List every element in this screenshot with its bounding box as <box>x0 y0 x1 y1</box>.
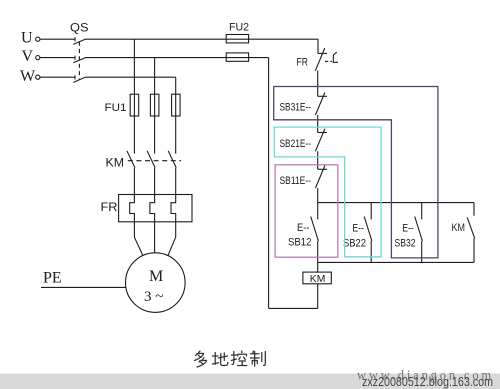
pushbutton SB12 blade <box>311 217 319 242</box>
wire FR to motor c <box>168 222 176 256</box>
group box location2 cyan <box>274 127 381 257</box>
pushbutton SB22 blade <box>364 217 372 242</box>
pushbutton SB22 stub <box>370 203 372 220</box>
wire FU2-1 to control drop <box>226 38 318 40</box>
title 多地控制 (drawn as strokes) <box>195 351 266 367</box>
QS pole W fixed tick <box>74 75 76 79</box>
fuse FU1-c <box>172 94 181 116</box>
QS pole U fixed tick <box>74 37 76 41</box>
terminal V <box>36 56 40 60</box>
wire U after QS <box>85 38 226 40</box>
svg-text:3 ~: 3 ~ <box>144 289 163 305</box>
pushbutton SB32 blade <box>415 217 423 242</box>
QS linkage dashed <box>78 42 80 81</box>
wire PE <box>41 286 126 288</box>
FR actuator hook <box>333 52 338 62</box>
wire W to QS <box>40 76 75 78</box>
top bus <box>318 202 474 204</box>
wire FR to SB31 <box>317 71 319 97</box>
pushbutton SB11 blade <box>315 166 325 189</box>
wire coil to bottom <box>317 284 319 309</box>
pushbutton SB31 NC bar <box>318 95 327 97</box>
contact KM aux stub <box>473 203 475 216</box>
thermal relay FR box <box>119 195 192 222</box>
char 控 <box>231 351 247 366</box>
svg-text:FU2: FU2 <box>229 22 249 34</box>
svg-text:U: U <box>21 30 33 47</box>
motor M circle <box>126 253 186 313</box>
svg-text:SB32: SB32 <box>395 237 416 249</box>
fuse FU2-2 <box>226 53 248 61</box>
group box location1 magenta <box>275 165 338 257</box>
terminal U <box>36 37 40 41</box>
wire SB32 down <box>421 241 423 262</box>
wire W after QS <box>85 76 176 78</box>
contact KM aux blade <box>467 217 475 238</box>
svg-text:SB11E--: SB11E-- <box>280 175 312 187</box>
FR heater b <box>150 195 155 222</box>
svg-text:SB21E--: SB21E-- <box>280 138 312 150</box>
contactor KM pole a <box>127 151 135 168</box>
fuse FU1-a <box>130 94 139 116</box>
wire FR to motor a <box>134 222 142 256</box>
wire KM aux down <box>473 238 475 262</box>
group box location3 navy <box>274 87 438 258</box>
char 多 <box>195 351 207 367</box>
char 制 <box>250 351 265 366</box>
wire SB31 to SB21 <box>317 115 319 133</box>
svg-text:KM: KM <box>106 158 125 170</box>
footer gray bar <box>0 374 500 389</box>
QS pole W blade <box>73 77 85 82</box>
FR heater a <box>130 195 135 222</box>
svg-text:E--: E-- <box>297 222 310 234</box>
wire SB21 to SB11 <box>317 151 319 169</box>
svg-text:E--: E-- <box>402 222 414 234</box>
wire control feed drop <box>317 39 319 53</box>
svg-text:FR: FR <box>297 57 309 69</box>
wire KM to FR <box>134 168 175 195</box>
FR heater c <box>171 195 176 222</box>
svg-text:PE: PE <box>43 270 62 287</box>
svg-text:SB31E--: SB31E-- <box>280 102 312 114</box>
pushbutton SB31 blade <box>315 93 325 116</box>
svg-text:KM: KM <box>452 222 466 234</box>
wire drop phase B <box>154 58 156 95</box>
wire SB11 to bus <box>317 188 319 203</box>
FR linkage dashes <box>325 60 332 62</box>
QS pole U blade <box>73 39 85 44</box>
svg-text:FU1: FU1 <box>105 102 127 114</box>
wire drop phase C <box>175 77 177 94</box>
svg-text:E--: E-- <box>352 222 364 234</box>
svg-text:V: V <box>22 48 34 65</box>
bottom return wire <box>269 307 318 309</box>
FR NC contact blade <box>315 48 325 71</box>
char 地 <box>213 353 228 366</box>
svg-text:M: M <box>149 268 163 285</box>
svg-text:QS: QS <box>70 21 89 35</box>
wire FU1 to KM contacts <box>134 116 175 154</box>
pushbutton SB21 NC bar <box>318 132 327 134</box>
contactor KM pole c <box>168 151 176 168</box>
bottom bus <box>318 261 474 263</box>
pushbutton SB11 NC bar <box>318 168 327 170</box>
terminal W <box>36 75 40 79</box>
QS pole V blade <box>73 58 85 63</box>
svg-text:KM: KM <box>310 274 326 285</box>
fuse FU1-b <box>150 94 159 116</box>
pushbutton SB32 stub <box>421 203 423 220</box>
fuse FU2-1 <box>226 35 248 43</box>
wire V after QS <box>85 57 226 59</box>
svg-text:FR: FR <box>101 202 118 214</box>
wire FU2-2 to left return <box>226 57 269 59</box>
svg-text:SB12: SB12 <box>288 237 312 249</box>
left return wire <box>268 58 270 309</box>
wire drop phase A <box>133 39 135 94</box>
wire V to QS <box>40 57 75 59</box>
KM linkage dashed <box>128 160 181 162</box>
QS pole V fixed tick <box>74 56 76 60</box>
pushbutton SB21 blade <box>315 129 325 152</box>
pushbutton SB12 stub <box>317 203 319 220</box>
svg-text:zxz20080512.blog.163.com: zxz20080512.blog.163.com <box>362 375 493 389</box>
wire U to QS <box>40 38 75 40</box>
contactor KM pole b <box>147 151 155 168</box>
svg-text:W: W <box>20 68 36 85</box>
svg-text:SB22: SB22 <box>343 237 366 249</box>
coil KM box <box>303 272 331 284</box>
FR NC contact bar <box>318 52 327 54</box>
wire SB12 down <box>317 241 319 262</box>
wire SB22 down <box>370 241 372 262</box>
wire FR to motor b <box>154 222 156 253</box>
wire bus to coil <box>317 262 319 272</box>
